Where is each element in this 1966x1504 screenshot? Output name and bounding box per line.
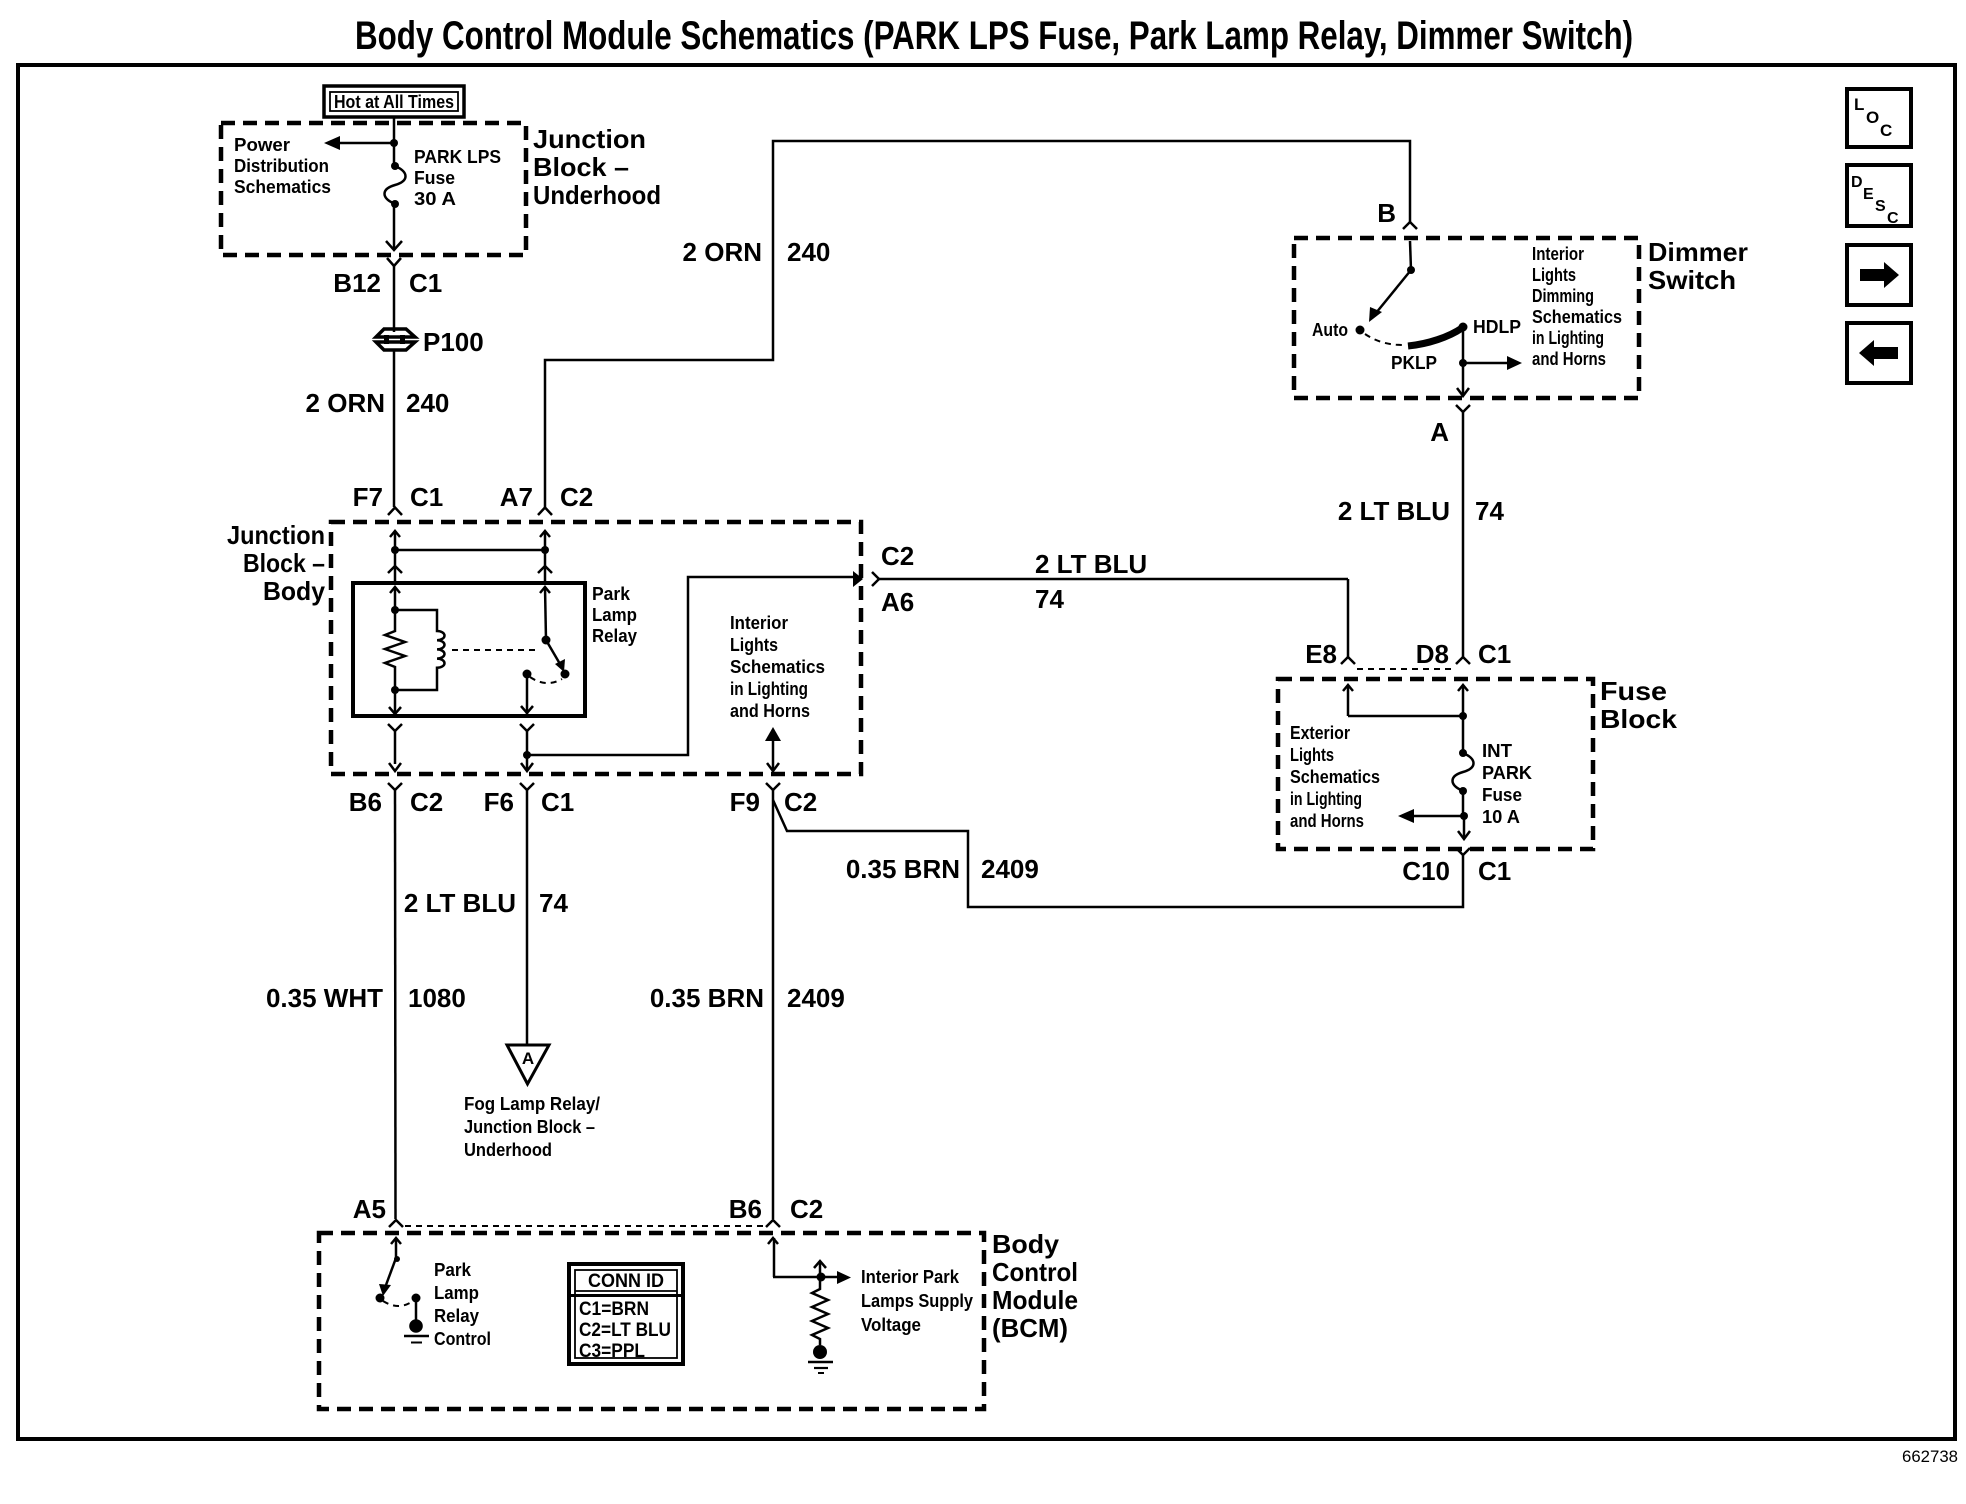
svg-text:C1: C1 [541,787,574,817]
fuse PARK LPS 30A symbol [385,162,406,208]
branch F9 to fuse block C10 [773,800,1463,907]
interior park lamps supply voltage label [861,1267,973,1335]
svg-text:C2: C2 [560,482,593,512]
svg-text:Control: Control [434,1329,491,1349]
svg-text:C2: C2 [790,1194,823,1224]
park lamp relay control label [434,1260,491,1349]
svg-text:Schematics: Schematics [1290,767,1380,787]
arrow to exterior lights schematics [1398,809,1464,823]
relay terminal chevron (switch side) [538,566,552,573]
park lamp relay box [353,583,585,716]
svg-text:74: 74 [1475,496,1504,526]
wire switch out to F6 exit arrow [521,755,533,771]
node HDLP tee [1459,359,1467,367]
fog lamp relay label [464,1094,600,1160]
svg-text:Lights: Lights [1532,265,1576,285]
wire label 2 LT BLU 74 (dimmer drop) [1338,496,1505,526]
svg-text:Auto: Auto [1312,320,1348,340]
dashed connector face line A5-B6 [405,1225,764,1227]
wire fuse to exterior lights tee [1462,791,1465,816]
wire label 0.35 BRN 2409 (to C10) [846,854,1039,884]
DESC button [1847,165,1911,227]
svg-text:0.35 BRN: 0.35 BRN [846,854,960,884]
wire horizontal run corner down to E8 [1347,579,1350,657]
arrow up to interior lights schematics [765,727,781,771]
svg-text:Fuse: Fuse [1482,785,1522,805]
svg-text:240: 240 [406,388,449,418]
CONN ID table [569,1264,683,1364]
svg-text:A: A [522,1049,534,1068]
svg-text:Interior: Interior [1532,244,1584,264]
wire label 2 ORN 240 (upper) [306,388,450,418]
connector A chevron [1456,405,1470,657]
svg-text:662738: 662738 [1902,1447,1958,1466]
svg-text:C: C [1887,210,1899,227]
svg-text:L: L [1854,95,1864,114]
wire to B6 exit arrow [389,763,401,771]
svg-text:C10: C10 [1402,856,1450,886]
svg-text:2409: 2409 [787,983,845,1013]
wire fuse to B12 with exit arrow [386,204,402,250]
svg-text:Module: Module [992,1285,1078,1315]
svg-text:10 A: 10 A [1482,807,1520,827]
ground (interior park lamps) [808,1345,833,1373]
wire contact to ground [415,1298,418,1320]
relay coil [395,610,445,690]
wire tee down to C10 with exit arrow [1458,816,1470,839]
dashed connector face line E8-D8 [1357,668,1453,670]
svg-text:and Horns: and Horns [730,701,810,721]
fuse block label [1600,676,1678,734]
node supply tee [817,1273,826,1282]
relay terminal chevron below (switch out) [520,724,534,755]
svg-text:Lights: Lights [730,635,778,655]
wire from Hot at All Times into junction block [393,117,396,166]
svg-text:Body Control Module Schematics: Body Control Module Schematics (PARK LPS… [355,14,1633,58]
svg-text:2 LT BLU: 2 LT BLU [404,888,516,918]
svg-text:Block –: Block – [533,152,629,182]
svg-text:Fog Lamp Relay/: Fog Lamp Relay/ [464,1094,600,1114]
svg-text:Exterior: Exterior [1290,723,1350,743]
wire label 2 LT BLU 74 (F6 drop) [404,888,569,918]
svg-text:B6: B6 [729,1194,762,1224]
svg-text:Lamp: Lamp [434,1283,479,1303]
relay switch [523,587,570,683]
svg-text:Voltage: Voltage [861,1315,921,1335]
svg-text:C1: C1 [1478,639,1511,669]
relay resistor [385,610,405,690]
svg-text:Control: Control [992,1257,1078,1287]
svg-text:C1: C1 [409,268,442,298]
svg-text:HDLP: HDLP [1473,317,1521,337]
svg-text:Hot at All Times: Hot at All Times [334,92,454,112]
connector F7 chevron [388,508,402,516]
C2/A6 exit arrow at box edge [853,571,863,587]
svg-text:PARK: PARK [1482,763,1532,783]
svg-text:Distribution: Distribution [234,156,329,176]
arrow to interior lights dimming schematics [1463,356,1522,370]
svg-text:CONN ID: CONN ID [588,1271,664,1292]
svg-text:Relay: Relay [592,626,637,646]
relay coil bottom node [391,686,399,694]
svg-text:Interior Park: Interior Park [861,1267,960,1287]
node HDLP contact [1459,323,1468,332]
svg-text:74: 74 [1035,584,1064,614]
svg-text:C2: C2 [881,541,914,571]
dashed travel arc Auto to PKLP [1365,334,1403,345]
svg-text:E: E [1863,186,1874,203]
svg-text:B6: B6 [349,787,382,817]
svg-text:Body: Body [263,576,326,606]
svg-text:A: A [1430,417,1449,447]
body control module label [992,1229,1078,1343]
next (right arrow) button [1847,245,1911,305]
svg-text:Dimming: Dimming [1532,286,1594,306]
wire label 2 LT BLU 74 (horizontal run) [1035,549,1147,614]
svg-text:C1: C1 [1478,856,1511,886]
svg-text:Fuse: Fuse [414,168,455,188]
wire A7 tie to relay [544,550,547,583]
node: feed junction dot [390,139,398,147]
svg-text:INT: INT [1482,741,1512,761]
svg-text:Lamp: Lamp [592,605,637,625]
svg-text:Junction Block –: Junction Block – [464,1117,595,1137]
A7 entry arrow [540,531,550,550]
svg-text:E8: E8 [1305,639,1337,669]
supply tee up arrow [814,1261,826,1277]
svg-text:Schematics: Schematics [234,177,331,197]
park lamp relay control switch arm [379,1256,400,1296]
wire E8 to D8 tee [1348,715,1463,718]
wire coil bottom to relay edge with exit arrow [389,690,401,715]
svg-text:B12: B12 [333,268,381,298]
svg-text:(BCM): (BCM) [992,1313,1068,1343]
svg-text:Schematics: Schematics [730,657,825,677]
svg-text:2 LT BLU: 2 LT BLU [1338,496,1450,526]
wire label 2 ORN 240 (branch) [683,237,831,267]
supply tee right arrow [820,1271,851,1284]
node: switch out tee [523,751,531,759]
wire label 0.35 WHT 1080 [266,983,466,1013]
svg-text:240: 240 [787,237,830,267]
svg-text:C2: C2 [784,787,817,817]
node at A7 tie [541,546,549,554]
dimmer switch label [1648,237,1748,295]
svg-text:Fuse: Fuse [1600,676,1667,706]
svg-text:in Lighting: in Lighting [730,679,808,699]
svg-text:0.35 BRN: 0.35 BRN [650,983,764,1013]
connector B12/C1 chevron [387,258,401,332]
svg-text:Lamps Supply: Lamps Supply [861,1291,973,1311]
junction block underhood dashed box [221,123,526,255]
fuse block dashed box [1278,679,1593,849]
dimmer switch dashed box [1294,238,1639,398]
dashed arc between contacts [383,1301,413,1306]
svg-text:2 LT BLU: 2 LT BLU [1035,549,1147,579]
svg-text:F9: F9 [730,787,760,817]
wire branch A7 up and over to dimmer switch B [545,141,1410,507]
svg-text:C: C [1880,121,1892,140]
park lamp relay label [592,584,637,646]
A5 entry arrow [391,1238,401,1258]
B6 entry arrow (BCM) [768,1238,778,1277]
svg-text:Lights: Lights [1290,745,1334,765]
node D8 tee [1459,712,1467,720]
connector A7 chevron [538,508,552,516]
svg-text:Underhood: Underhood [533,180,661,210]
power distribution schematics label [234,135,331,197]
svg-text:2 ORN: 2 ORN [306,388,385,418]
splice P100 [376,329,415,350]
svg-text:Dimmer: Dimmer [1648,237,1748,267]
LOC button [1847,89,1911,147]
svg-text:and Horns: and Horns [1290,811,1364,831]
off-page triangle A (fog lamp relay) [507,1045,549,1084]
connector F6 chevron [520,783,534,1046]
svg-text:Underhood: Underhood [464,1140,552,1160]
node at F7 tie [391,546,399,554]
svg-text:74: 74 [539,888,568,918]
connector B6 chevron (BCM) [766,1220,780,1227]
F7 entry arrow [390,531,400,550]
svg-text:PKLP: PKLP [1391,353,1437,373]
connector D8 chevron [1456,657,1470,664]
dimmer switch arm pivot node [1407,266,1415,274]
node exterior lights tee [1460,812,1468,820]
wire tee to C2/A6 exit [527,577,853,755]
svg-text:and Horns: and Horns [1532,349,1606,369]
wire HDLP down to tee [1462,327,1465,363]
connector C10 chevron [1456,848,1470,855]
connector E8 chevron [1341,657,1355,664]
dimmer wiper thick arc PKLP-HDLP [1408,328,1462,346]
BCM pull resistor [812,1277,828,1345]
C2/A6 connector chevron [872,572,1348,586]
PARK LPS fuse value label [414,147,501,209]
svg-text:S: S [1875,198,1886,215]
svg-text:Relay: Relay [434,1306,479,1326]
svg-text:30 A: 30 A [414,189,456,209]
wire tee down to A with exit arrow [1457,363,1469,396]
svg-text:2 ORN: 2 ORN [683,237,762,267]
svg-text:D: D [1851,174,1863,191]
svg-text:Interior: Interior [730,613,788,633]
svg-text:Block: Block [1600,704,1678,734]
body control module dashed box [319,1233,984,1409]
node switch contact left [376,1294,385,1303]
connector B6 chevron (junction block exit) [388,783,402,1219]
svg-text:C2: C2 [410,787,443,817]
svg-text:A6: A6 [881,587,914,617]
Hot at All Times box [324,86,464,117]
wire F7 tie to relay [394,550,397,583]
svg-text:D8: D8 [1416,639,1449,669]
wire B6 to supply tee [773,1276,820,1279]
node switch contact right [412,1294,421,1303]
svg-text:Junction: Junction [227,520,325,550]
svg-text:A7: A7 [500,482,533,512]
node Auto contact [1356,326,1365,335]
back (left arrow) button [1847,323,1911,383]
svg-text:Body: Body [992,1229,1060,1259]
INT PARK fuse label [1482,741,1532,827]
ground (park lamp relay control) [404,1319,429,1342]
dimmer switch arm with arrowhead [1369,270,1411,322]
svg-text:A5: A5 [353,1194,386,1224]
svg-text:Power: Power [234,135,290,155]
svg-text:in Lighting: in Lighting [1532,328,1604,348]
svg-text:0.35 WHT: 0.35 WHT [266,983,383,1013]
wire switch common to relay edge with exit arrow [521,674,533,714]
interior lights dimming schematics label [1532,244,1622,369]
svg-text:O: O [1866,108,1879,127]
svg-text:Junction: Junction [533,124,646,154]
svg-text:F6: F6 [484,787,514,817]
svg-text:Switch: Switch [1648,265,1736,295]
svg-text:Park: Park [434,1260,472,1280]
svg-text:Park: Park [592,584,631,604]
wire P100 to F7 [393,350,396,507]
svg-text:C3=PPL: C3=PPL [579,1341,645,1362]
svg-text:C1: C1 [410,482,443,512]
svg-text:1080: 1080 [408,983,466,1013]
relay coil top node [391,606,399,614]
exterior lights schematics label [1290,723,1380,831]
svg-text:C1=BRN: C1=BRN [579,1299,649,1320]
D8 entry arrow [1458,685,1468,753]
fuse INT PARK 10A symbol [1453,749,1474,795]
connector F9 chevron [766,783,780,1219]
svg-text:F7: F7 [353,482,383,512]
relay terminal chevron below (coil return) [388,724,402,764]
relay terminal chevron (coil side) [388,566,402,573]
svg-text:Schematics: Schematics [1532,307,1622,327]
svg-text:PARK LPS: PARK LPS [414,147,501,167]
arrow to power distribution schematics [324,136,394,150]
wire label 0.35 BRN 2409 (F9 drop) [650,983,845,1013]
svg-text:C2=LT BLU: C2=LT BLU [579,1320,671,1341]
tie wire between F7 and A7 [395,549,545,552]
E8 entry arrow [1343,685,1353,716]
relay coil-side entry arrow [390,587,400,610]
junction block body label [227,520,326,606]
svg-text:Block –: Block – [243,548,325,578]
relay actuation dashed link [452,649,536,651]
junction block body dashed box [331,522,861,774]
connector A5 chevron [389,1220,403,1227]
interior lights schematics label (junction block) [730,613,825,721]
svg-text:in Lighting: in Lighting [1290,789,1362,809]
connector B chevron [1403,222,1417,270]
junction block underhood label [533,124,661,210]
svg-text:2409: 2409 [981,854,1039,884]
svg-text:B: B [1377,198,1396,228]
svg-text:P100: P100 [423,327,484,357]
